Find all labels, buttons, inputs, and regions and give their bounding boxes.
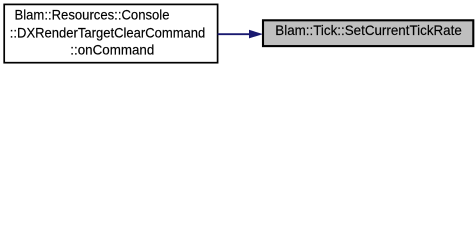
call edge arrow	[218, 30, 263, 39]
svg-text:::onCommand: ::onCommand	[70, 43, 154, 58]
caller node box Blam::Resources::Console::DXRenderTargetClearCommand::onCommand	[4, 4, 217, 62]
current node box Blam::Tick::SetCurrentTickRate	[263, 20, 473, 46]
doxygen call graph	[0, 0, 476, 67]
svg-text:Blam::Tick::SetCurrentTickRate: Blam::Tick::SetCurrentTickRate	[275, 23, 462, 38]
svg-text:Blam::Resources::Console: Blam::Resources::Console	[15, 8, 170, 23]
svg-text:::DXRenderTargetClearCommand: ::DXRenderTargetClearCommand	[10, 26, 206, 41]
